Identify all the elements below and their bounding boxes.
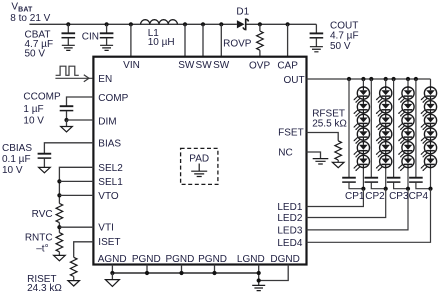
- wire SW pin 1: [183, 22, 187, 57]
- wire LGND pin: [258, 265, 260, 286]
- node LED4 junction: [428, 187, 432, 191]
- svg-text:PGND: PGND: [165, 254, 194, 265]
- wire PGND pin 2: [181, 265, 183, 274]
- wire LED4: [307, 189, 431, 243]
- svg-text:EN: EN: [98, 74, 112, 85]
- LED string 2: [376, 79, 392, 189]
- svg-text:VTI: VTI: [98, 222, 114, 233]
- svg-text:PGND: PGND: [132, 254, 161, 265]
- svg-text:LED4: LED4: [277, 238, 302, 249]
- diode D1: [236, 7, 249, 30]
- svg-text:RNTC: RNTC: [25, 233, 53, 244]
- LED string 1: [354, 79, 370, 189]
- ground (DIM, open triangle): [61, 127, 73, 132]
- node VBAT label: [10, 1, 50, 24]
- node DIM / wire DIM: [64, 118, 93, 127]
- wire EN: [55, 75, 92, 82]
- svg-text:25.5 kΩ: 25.5 kΩ: [312, 118, 347, 129]
- svg-text:LGND: LGND: [237, 254, 265, 265]
- wire ground rail: [110, 271, 261, 275]
- svg-text:AGND: AGND: [98, 254, 127, 265]
- resistor RFSET: [312, 108, 347, 162]
- svg-text:ISET: ISET: [98, 237, 120, 248]
- svg-text:PAD: PAD: [189, 153, 209, 164]
- svg-text:8 to 21 V: 8 to 21 V: [10, 13, 50, 24]
- wire SEL1 / node: [57, 179, 93, 183]
- ground (COUT): [310, 47, 323, 52]
- svg-text:0.1 µF: 0.1 µF: [2, 154, 31, 165]
- wire LED1: [307, 189, 364, 207]
- wire AGND pin: [111, 265, 113, 274]
- capacitor CP1: [342, 79, 363, 189]
- capacitor CP4: [409, 79, 430, 189]
- svg-text:COMP: COMP: [98, 93, 128, 104]
- svg-text:CP3: CP3: [389, 191, 409, 202]
- svg-text:ROVP: ROVP: [223, 39, 252, 50]
- wire FSET: [307, 133, 339, 141]
- svg-text:NC: NC: [278, 147, 292, 158]
- op-amp U1 IC body: [93, 57, 306, 265]
- svg-text:1 µF: 1 µF: [23, 104, 43, 115]
- ground (CIN): [100, 45, 113, 50]
- svg-text:SW: SW: [213, 60, 230, 71]
- LED string 4: [421, 79, 437, 189]
- node LED3 junction: [406, 187, 410, 191]
- node LED2 junction: [384, 187, 388, 191]
- wire AGND stub: [111, 273, 113, 280]
- wire SW pin 2: [201, 22, 205, 57]
- svg-text:LED2: LED2: [277, 213, 302, 224]
- svg-text:CBIAS: CBIAS: [2, 143, 32, 154]
- wire VIN pin: [129, 22, 133, 57]
- svg-text:D1: D1: [236, 7, 249, 18]
- node dots on OUT rail: [347, 77, 418, 81]
- ground (NC): [313, 159, 329, 164]
- svg-text:VTO: VTO: [98, 191, 119, 202]
- svg-text:OVP: OVP: [249, 61, 270, 72]
- svg-text:LED1: LED1: [277, 202, 302, 213]
- svg-text:50 V: 50 V: [330, 41, 351, 52]
- node OVP / resistor ROVP: [223, 22, 263, 57]
- svg-text:VBAT: VBAT: [11, 1, 33, 13]
- wire DGND pin: [259, 265, 289, 281]
- wire ISET: [74, 242, 94, 257]
- svg-text:SEL2: SEL2: [98, 163, 123, 174]
- wire COMP: [67, 97, 94, 106]
- capacitor CBAT: [25, 22, 76, 59]
- svg-text:CP1: CP1: [345, 191, 365, 202]
- wire LED2: [307, 189, 386, 218]
- svg-text:SW: SW: [178, 60, 195, 71]
- wire LED3: [307, 189, 409, 230]
- svg-text:10 µH: 10 µH: [148, 37, 175, 48]
- capacitor CBIAS: [2, 143, 51, 176]
- svg-text:CP4: CP4: [409, 191, 429, 202]
- wire PGND pin 3: [214, 265, 216, 274]
- svg-text:CP2: CP2: [365, 191, 385, 202]
- wire CAP pin: [286, 22, 290, 57]
- ground (RISET, open triangle): [68, 281, 80, 286]
- svg-text:10 V: 10 V: [2, 165, 23, 176]
- ground (AGND, open triangle): [105, 280, 119, 287]
- EN pulse source: [56, 66, 79, 75]
- svg-text:–t°: –t°: [36, 244, 48, 255]
- wire SEL2: [59, 167, 93, 203]
- svg-text:24.3 kΩ: 24.3 kΩ: [27, 283, 62, 294]
- capacitor CP3: [387, 79, 408, 189]
- resistor RNTC (thermistor): [25, 233, 63, 256]
- svg-text:OUT: OUT: [283, 75, 304, 86]
- ground (PAD): [191, 171, 207, 176]
- svg-text:RVC: RVC: [32, 209, 53, 220]
- svg-text:LED3: LED3: [277, 226, 302, 237]
- inductor L1: [141, 20, 178, 48]
- svg-text:BIAS: BIAS: [98, 139, 121, 150]
- svg-text:50 V: 50 V: [25, 49, 46, 60]
- node DGND/LGND junction: [257, 278, 261, 282]
- ground (RNTC, open triangle): [54, 255, 66, 260]
- wire VTI / node: [57, 223, 93, 233]
- resistor RVC: [32, 203, 63, 222]
- svg-text:SEL1: SEL1: [98, 177, 123, 188]
- node LED1 junction: [361, 187, 365, 191]
- svg-text:PGND: PGND: [198, 254, 227, 265]
- svg-text:10 V: 10 V: [23, 115, 44, 126]
- wire NC: [307, 152, 321, 159]
- resistor RISET: [27, 257, 77, 294]
- svg-text:CCOMP: CCOMP: [23, 92, 61, 103]
- wire PGND pin 1: [146, 265, 148, 274]
- svg-text:CIN: CIN: [82, 32, 99, 43]
- wire VTO / node: [57, 193, 93, 197]
- ground (CBIAS, open triangle): [39, 167, 51, 172]
- ground (RFSET, open triangle): [332, 162, 344, 167]
- wire OUT rail: [307, 78, 431, 80]
- ground (CBAT): [62, 45, 75, 50]
- svg-text:DGND: DGND: [270, 254, 299, 265]
- LED string 3: [398, 79, 414, 189]
- svg-text:4.7 µF: 4.7 µF: [330, 31, 359, 42]
- capacitor CIN: [82, 22, 114, 45]
- svg-text:CAP: CAP: [277, 61, 298, 72]
- wire VBAT rail: [29, 23, 316, 25]
- capacitor CP2: [365, 79, 386, 189]
- svg-text:DIM: DIM: [98, 117, 116, 128]
- svg-text:FSET: FSET: [278, 128, 304, 139]
- svg-text:VIN: VIN: [123, 60, 140, 71]
- wire SW pin 3: [219, 22, 223, 57]
- capacitor COUT: [310, 21, 359, 52]
- svg-text:SW: SW: [196, 60, 213, 71]
- capacitor CCOMP: [23, 92, 73, 127]
- wire BIAS: [44, 143, 93, 154]
- PAD exposed pad: [181, 148, 218, 184]
- ground (LGND/DGND): [252, 285, 265, 290]
